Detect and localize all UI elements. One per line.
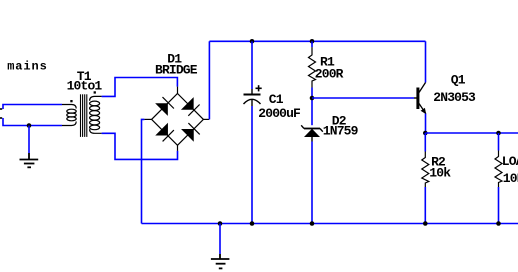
node load junction <box>496 131 501 136</box>
bridge rectifier D1 frame <box>144 87 209 151</box>
ground GND2 <box>211 254 230 268</box>
resistor LOAD <box>495 151 502 188</box>
resistor R2 <box>422 152 429 188</box>
capacitor C1 <box>244 85 262 106</box>
resistor R1 <box>309 47 316 87</box>
svg-text:200R: 200R <box>315 67 344 82</box>
wire bridge left to 0V rail <box>142 119 145 223</box>
wire bridge right to +V rail <box>208 41 210 119</box>
wire R1 bottom to node <box>311 88 313 126</box>
svg-text:10k: 10k <box>429 165 451 180</box>
node emitter junction <box>423 131 428 136</box>
transformer T1 core <box>81 94 87 137</box>
ground GND1 <box>20 153 39 167</box>
wire +V top rail <box>209 40 425 42</box>
node bottom rail R2 <box>423 221 428 226</box>
svg-text:LOAD: LOAD <box>502 154 518 169</box>
bridge diode bottom-left <box>155 123 174 142</box>
wire emitter rail <box>425 132 518 134</box>
wire C1 top <box>251 41 253 89</box>
svg-text:1N759: 1N759 <box>323 124 359 139</box>
svg-text:2N3053: 2N3053 <box>433 90 476 105</box>
wire secondary top to bridge top <box>102 78 178 97</box>
wire R2 top <box>424 133 426 152</box>
node top rail R1 <box>310 39 315 44</box>
node bottom rail ground <box>218 221 223 226</box>
svg-text:C1: C1 <box>269 92 284 107</box>
svg-text:Q1: Q1 <box>451 73 466 88</box>
svg-text:2000uF: 2000uF <box>258 106 301 121</box>
wire 0V bottom rail <box>142 223 518 225</box>
node bottom rail D2 <box>310 221 315 226</box>
transistor Q1 <box>414 83 426 115</box>
wire to ground 1 <box>28 126 30 154</box>
node mains-ground junction <box>27 123 32 128</box>
transformer T1 primary coil <box>62 105 76 126</box>
transformer T1 primary phasing dot <box>70 100 72 102</box>
wire R1 top <box>311 41 313 47</box>
wire Q1 emitter <box>425 114 427 133</box>
bridge diode top-right <box>181 97 200 116</box>
bridge diode bottom-right <box>181 123 200 142</box>
wire mains bottom <box>3 118 62 126</box>
node bottom rail LOAD <box>496 221 501 226</box>
wire base node to Q1 base <box>312 97 414 99</box>
node bottom rail C1 <box>250 221 255 226</box>
wire Q1 collector <box>425 41 427 82</box>
node base node <box>310 96 315 101</box>
wire D2 bottom <box>311 142 313 224</box>
svg-text:BRIDGE: BRIDGE <box>155 63 198 78</box>
bridge diode top-left <box>155 97 174 116</box>
svg-text:10to1: 10to1 <box>67 79 103 94</box>
node top rail C1 <box>250 39 255 44</box>
transformer T1 secondary phasing dot <box>94 91 96 93</box>
wire LOAD bottom <box>498 187 500 224</box>
mains terminal top <box>0 108 2 110</box>
mains terminal bottom <box>0 117 2 119</box>
wire to ground 2 <box>219 224 221 255</box>
wire C1 bottom <box>251 106 253 224</box>
wire LOAD top <box>498 133 500 151</box>
wire secondary bottom to bridge bottom <box>102 133 178 159</box>
wire R2 bottom <box>424 187 426 224</box>
svg-text:10R: 10R <box>503 171 518 186</box>
wire mains top <box>3 105 62 110</box>
zener diode D2 <box>301 125 323 141</box>
transformer T1 secondary coil <box>90 96 102 133</box>
svg-text:mains: mains <box>7 59 48 73</box>
